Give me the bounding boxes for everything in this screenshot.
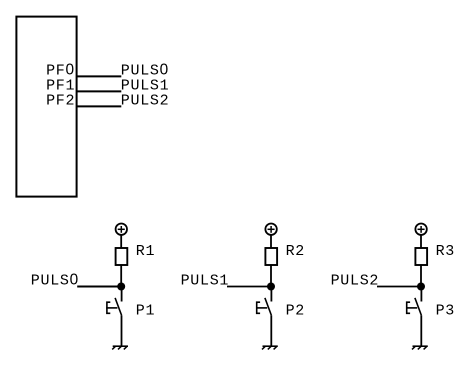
wire PULS1 to node bbox=[227, 286, 271, 288]
wire P2 to ground bbox=[270, 315, 272, 346]
svg-text:PULS2: PULS2 bbox=[121, 92, 170, 109]
svg-text:R2: R2 bbox=[286, 243, 305, 260]
wire R2 to node bbox=[270, 265, 272, 287]
resistor R1 bbox=[116, 248, 128, 265]
wire R3 to node bbox=[420, 265, 422, 287]
svg-text:PULS0: PULS0 bbox=[31, 272, 79, 290]
power symbol VCC3 bbox=[415, 224, 426, 235]
wire R1 to node bbox=[120, 265, 122, 287]
wire PF0 to PULS0 bbox=[77, 75, 122, 77]
svg-text:PF2: PF2 bbox=[46, 92, 75, 109]
svg-text:PULS1: PULS1 bbox=[181, 273, 230, 290]
wire PF2 to PULS2 bbox=[77, 105, 122, 107]
ground bbox=[262, 346, 278, 349]
svg-text:P3: P3 bbox=[436, 303, 455, 320]
junction node PULS1 bbox=[267, 283, 275, 291]
wire PULS2 to node bbox=[377, 286, 421, 288]
wire PF1 to PULS1 bbox=[77, 90, 122, 92]
svg-text:R3: R3 bbox=[436, 243, 455, 260]
wire node to pushbutton contact bbox=[270, 286, 272, 302]
svg-text:R1: R1 bbox=[136, 243, 155, 260]
power symbol VCC2 bbox=[265, 224, 276, 235]
wire power to R3 bbox=[420, 235, 422, 248]
wire PULS0 to node bbox=[77, 286, 121, 288]
pushbutton P2 bbox=[256, 298, 271, 316]
junction node PULS0 bbox=[117, 283, 125, 291]
junction node PULS2 bbox=[417, 283, 425, 291]
wire power to R1 bbox=[120, 235, 122, 248]
resistor R3 bbox=[415, 248, 427, 265]
ground bbox=[412, 346, 428, 349]
wire node to pushbutton contact bbox=[121, 286, 123, 302]
power symbol VCC1 bbox=[116, 224, 127, 235]
pushbutton P1 bbox=[106, 298, 121, 316]
svg-text:PULS2: PULS2 bbox=[331, 273, 380, 290]
wire P3 to ground bbox=[420, 315, 422, 346]
svg-text:P2: P2 bbox=[286, 303, 305, 320]
pushbutton P3 bbox=[406, 298, 421, 316]
svg-text:P1: P1 bbox=[136, 303, 155, 320]
wire power to R2 bbox=[270, 235, 272, 248]
wire node to pushbutton contact bbox=[420, 286, 422, 302]
wire P1 to ground bbox=[121, 315, 123, 346]
ground bbox=[112, 346, 128, 349]
resistor R2 bbox=[265, 248, 277, 265]
IC box U1 bbox=[16, 17, 76, 197]
